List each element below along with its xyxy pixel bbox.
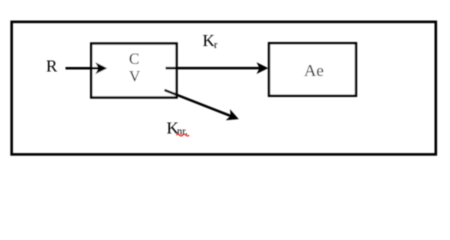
wire arrow R to CV	[66, 67, 99, 70]
svg-text:V: V	[129, 69, 141, 86]
svg-text:Ae: Ae	[304, 61, 324, 80]
outer frame	[12, 22, 436, 155]
box CV	[91, 44, 176, 98]
svg-text:C: C	[129, 51, 139, 68]
red spellcheck squiggle under nr.	[176, 134, 189, 136]
wire arrow CV to Ae (Kr)	[166, 67, 260, 70]
svg-text:r: r	[214, 40, 218, 51]
wire arrow diagonal (Knr)	[165, 90, 231, 116]
box Ae	[269, 43, 356, 96]
svg-text:R: R	[46, 56, 58, 75]
